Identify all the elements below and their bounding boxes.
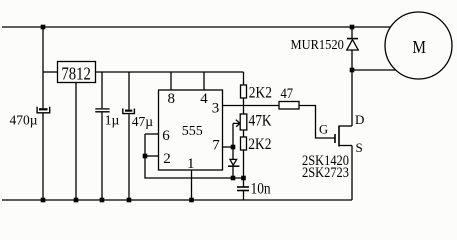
svg-text:10n: 10n (250, 181, 271, 198)
svg-text:S: S (356, 140, 363, 155)
svg-text:8: 8 (168, 91, 176, 107)
svg-text:MUR1520: MUR1520 (291, 36, 345, 52)
svg-text:3: 3 (212, 101, 220, 117)
svg-text:47: 47 (280, 85, 293, 101)
svg-text:1µ: 1µ (105, 113, 120, 128)
svg-text:D: D (355, 112, 364, 127)
svg-text:1: 1 (187, 156, 195, 172)
svg-text:2K2: 2K2 (249, 85, 272, 102)
svg-text:2K2: 2K2 (248, 136, 271, 153)
svg-text:2SK2723: 2SK2723 (302, 164, 349, 180)
svg-text:2: 2 (163, 151, 171, 167)
svg-text:4: 4 (200, 91, 208, 107)
svg-text:47µ: 47µ (132, 114, 154, 129)
svg-text:G: G (319, 123, 328, 137)
svg-text:6: 6 (162, 128, 170, 144)
svg-text:7812: 7812 (61, 63, 90, 84)
svg-text:555: 555 (182, 124, 203, 139)
svg-text:M: M (412, 37, 426, 58)
svg-text:470µ: 470µ (10, 113, 38, 128)
svg-text:7: 7 (212, 138, 220, 154)
svg-text:47K: 47K (248, 113, 271, 130)
